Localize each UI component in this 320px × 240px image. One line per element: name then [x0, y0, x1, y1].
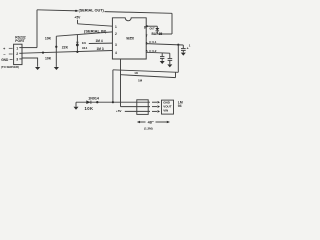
- wire +5V to IC pin 1: [78, 24, 113, 26]
- wire serial-out vertical from connector pin 1: [36, 10, 38, 48]
- node dot on pin 6 wire: [177, 44, 179, 46]
- svg-text:(1.2M): (1.2M): [144, 126, 153, 130]
- wire RS232 pin 3 to ground: [22, 58, 38, 67]
- wire rail A from pin6 node down and left: [177, 45, 179, 73]
- capacitor C2: [160, 53, 164, 61]
- wire stubs from +/-/GND labels to connector: [9, 48, 13, 59]
- svg-text:8: 8: [144, 25, 146, 29]
- capacitor C1: [181, 45, 186, 52]
- label RS232 PORT: [15, 35, 25, 43]
- wire serial-out right vertical drop: [171, 13, 173, 34]
- wire rail B horizontal: [121, 75, 176, 78]
- svg-text:1K: 1K: [134, 71, 139, 75]
- label 1N 914: [82, 41, 88, 50]
- wire IC pin 5 to caps: [146, 51, 170, 54]
- node pin 8 junction blob: [146, 25, 148, 27]
- node junction dot at diode tap: [76, 44, 79, 47]
- svg-text:C 0.2: C 0.2: [149, 49, 157, 53]
- svg-text:−: −: [3, 52, 6, 57]
- arrow w1 to module: [152, 101, 160, 104]
- svg-text:1: 1: [189, 43, 191, 47]
- wire serial-in to IC pin 2: [56, 32, 112, 36]
- ground under C3: [167, 64, 172, 67]
- svg-text:1M 4: 1M 4: [96, 39, 103, 43]
- svg-text:2: 2: [16, 52, 18, 56]
- pin numbers right: [144, 25, 148, 53]
- svg-text:3: 3: [115, 43, 117, 47]
- svg-text:10K: 10K: [45, 37, 52, 41]
- dimension arrow 48 inch: [137, 120, 170, 124]
- svg-text:OUT: OUT: [150, 28, 156, 31]
- ground hang at left of w1: [74, 102, 79, 110]
- cable box: [137, 100, 148, 115]
- ground under branch: [54, 67, 59, 70]
- arrow w2 to module: [152, 105, 160, 108]
- svg-text:C 0.1: C 0.1: [149, 40, 157, 44]
- ground under C2: [160, 61, 165, 64]
- wire connector pin 1 to riser: [22, 47, 37, 49]
- node dot on pin2 wire: [42, 52, 44, 54]
- connector J1 RS232 PORT box: [14, 44, 22, 64]
- wire rail B vertical from IC bottom: [120, 59, 122, 107]
- wire rail B hook up: [175, 72, 177, 77]
- wire vertical serial-in branch with diode: [76, 35, 78, 52]
- capacitor C3: [168, 53, 173, 64]
- IR module U2 box: [162, 100, 174, 114]
- svg-text:PORT: PORT: [15, 39, 25, 43]
- svg-text:10K: 10K: [45, 57, 52, 61]
- svg-text:22K: 22K: [62, 45, 69, 49]
- svg-text:4: 4: [115, 51, 117, 55]
- ground under C1: [181, 53, 186, 56]
- wire w1 signal from ground clamp to cable: [76, 101, 150, 103]
- node dot on branch: [55, 46, 57, 48]
- wire serial-out horizontal right segment: [105, 12, 173, 14]
- svg-text:914: 914: [82, 46, 87, 50]
- svg-text:1: 1: [16, 47, 18, 51]
- wire RS232 pin 2 to IC pin 4: [22, 51, 112, 54]
- svg-text:1N: 1N: [82, 41, 87, 45]
- svg-text:+: +: [3, 46, 6, 51]
- arrow w3 to module: [152, 110, 160, 113]
- pin tick marks: [19, 48, 22, 59]
- wire bottom rail to diode D1: [157, 33, 172, 35]
- wire vertical branch at x=56.4: [55, 36, 57, 67]
- svg-text:48": 48": [148, 120, 154, 124]
- svg-text:NE555: NE555: [126, 36, 133, 40]
- diode D2 1N914 on w1: [86, 100, 91, 104]
- wire pin 8 stub to diode: [146, 25, 157, 27]
- ground at connector pin 3: [35, 67, 40, 70]
- wire IC pin 6 to cap C1: [146, 44, 183, 45]
- wire to IC pin 3: [89, 42, 113, 44]
- svg-text:+5V: +5V: [116, 109, 123, 113]
- svg-text:+5V: +5V: [74, 16, 81, 20]
- wire w2 from rail B into cable: [121, 106, 151, 108]
- svg-text:94: 94: [178, 104, 182, 108]
- diode D3 1N914 bar on vertical: [76, 41, 78, 43]
- pin numbers left: [115, 25, 117, 55]
- svg-text:1N914: 1N914: [88, 97, 99, 101]
- node dot where serial-in branch meets: [76, 51, 78, 53]
- svg-text:(TO SERVER): (TO SERVER): [1, 65, 19, 69]
- wire rail A horizontal: [113, 70, 178, 73]
- svg-text:1: 1: [115, 25, 117, 29]
- svg-text:1M 3: 1M 3: [97, 47, 104, 51]
- power +5V symbol: [74, 16, 81, 24]
- svg-text:(SERIAL OUT): (SERIAL OUT): [79, 7, 105, 12]
- node dot w1 and rail A vertical: [112, 101, 114, 103]
- wire vertical from rail A down to signal wire: [112, 70, 114, 102]
- svg-text:VIN: VIN: [163, 108, 168, 112]
- svg-text:2: 2: [115, 32, 117, 36]
- op IC U1 8-pin DIP body: [112, 18, 146, 59]
- svg-text:GND: GND: [1, 58, 9, 62]
- svg-text:3: 3: [16, 58, 18, 62]
- wire w3 +5V into cable: [125, 110, 150, 112]
- wire serial-out horizontal left segment: [37, 10, 78, 11]
- node dot on w1: [96, 101, 98, 103]
- svg-text:1M: 1M: [138, 78, 143, 82]
- svg-text:10K: 10K: [85, 106, 94, 111]
- diode D1 BAT85: [155, 26, 159, 34]
- node junction dot on serial-out at +5V tap: [75, 10, 77, 12]
- svg-text:7: 7: [146, 34, 148, 38]
- svg-text:BAT 85: BAT 85: [152, 32, 163, 36]
